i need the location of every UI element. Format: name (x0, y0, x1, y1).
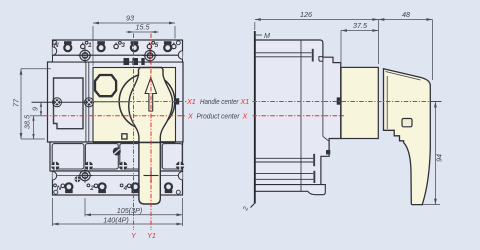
svg-text:38.5: 38.5 (23, 114, 32, 129)
svg-text:48: 48 (402, 10, 410, 19)
bottom strip (53, 171, 183, 195)
svg-text:N: N (54, 42, 59, 49)
top terminal screw side (255, 53, 312, 57)
top terminals: pole 5 (147, 41, 176, 51)
clover screw 1 (51, 162, 59, 170)
compartment box 3 (120, 144, 139, 169)
dim 15.5 (126, 31, 159, 33)
svg-text:105(3P): 105(3P) (117, 206, 143, 215)
svg-text:140(4P): 140(4P) (103, 215, 129, 224)
padlock hole (402, 119, 412, 127)
inner cover front line (322, 61, 324, 136)
svg-text:9: 9 (33, 107, 40, 111)
top terminal strip (53, 40, 183, 55)
thick panel bottom edge (93, 141, 176, 143)
handle inner top line (386, 72, 421, 81)
svg-text:1: 1 (88, 42, 92, 49)
svg-text:Product center: Product center (197, 114, 241, 121)
crosshair top left (78, 48, 93, 63)
dim 77 (21, 69, 51, 139)
body lower plate and foot (255, 185, 325, 195)
dim 37.5 (341, 31, 378, 67)
cream front panel (93, 68, 176, 142)
X1 handle center line right (253, 101, 431, 103)
compartment box 1 (52, 144, 84, 169)
svg-text:X1: X1 (186, 97, 196, 106)
shaft pin dark (337, 97, 341, 104)
side body outline (255, 40, 341, 185)
grip shaft front view (129, 68, 173, 205)
bottom terminal screw side (255, 158, 313, 162)
dim 93 (93, 23, 175, 66)
compartment box 2 (85, 144, 118, 169)
clover screw 3 (119, 162, 127, 170)
clover screw 2 (85, 162, 93, 170)
dim 140(4P) (53, 198, 183, 226)
back plate line (254, 31, 256, 204)
crosshair bottom right cross over grip (144, 168, 159, 183)
teeth tabs (124, 58, 130, 65)
svg-text:93: 93 (126, 14, 134, 23)
top terminals: pole N (54, 41, 72, 51)
svg-text:Y1: Y1 (147, 231, 156, 240)
dim 126 (255, 20, 379, 65)
svg-text:5: 5 (155, 42, 159, 49)
din clip screw side (255, 174, 313, 180)
crosshair top right (143, 48, 158, 63)
dim 9 (40, 102, 42, 116)
svg-text:94: 94 (435, 154, 444, 162)
dim 94 top arm (431, 101, 442, 103)
X product center line left (44, 115, 187, 117)
bottom terminals: pole N (54, 183, 73, 193)
cream front cover side (341, 67, 378, 138)
inner vertical line (300, 40, 302, 191)
svg-text:2: 2 (89, 185, 94, 192)
black tab at panel edge on X1 (175, 98, 179, 104)
svg-text:4: 4 (122, 185, 127, 192)
top band (53, 55, 183, 62)
svg-text:3: 3 (121, 42, 125, 49)
direction arrow on grip (145, 78, 156, 112)
X1 handle center line left (92, 101, 176, 103)
phillips screw bottom (75, 176, 81, 182)
notch square on profile (326, 150, 330, 154)
svg-text:X1: X1 (240, 97, 250, 106)
dim 105(3P) (85, 198, 183, 226)
screw left (53, 98, 62, 107)
dim 38.5 (30, 116, 44, 139)
top terminals: pole 3 (114, 41, 138, 51)
black handle-center line through screws (32, 101, 93, 103)
svg-text:77: 77 (12, 98, 21, 107)
lower mid body (50, 142, 183, 171)
knob escutcheon circle (119, 74, 175, 130)
compartment box 4 (162, 144, 182, 169)
cover lip (319, 57, 323, 62)
handle inner vertical line (386, 76, 388, 129)
black line on X1 through knob (93, 101, 176, 103)
screw right (85, 98, 94, 107)
M marker (255, 34, 262, 36)
line mid bottom strip (53, 175, 183, 177)
bottom terminals: pole 4 (120, 183, 139, 193)
bottom terminals: pole 2 (87, 183, 106, 193)
recess rectangle left (54, 78, 84, 129)
dark screw mid (113, 148, 121, 156)
inner diagonal (323, 136, 329, 141)
edge notches (53, 47, 57, 55)
small square on panel (122, 134, 127, 139)
Y1 handle center vertical (150, 34, 152, 231)
svg-text:M: M (264, 31, 270, 40)
svg-text:37.5: 37.5 (353, 21, 368, 30)
X product center line right (253, 115, 345, 117)
svg-text:15.5: 15.5 (136, 23, 151, 32)
dim 48 (378, 20, 432, 81)
svg-text:Handle center: Handle center (200, 99, 239, 106)
svg-text:126: 126 (300, 10, 312, 19)
bottom terminals: pole 6 (165, 183, 173, 193)
Y product center vertical (133, 34, 135, 231)
top terminals: pole 1 (81, 41, 105, 51)
corner holes (53, 41, 57, 45)
handle side profile (384, 69, 431, 205)
mid body (48, 62, 184, 142)
clover screw 4 (176, 162, 184, 170)
hexagon hole (95, 75, 116, 96)
crosshair bottom left (78, 168, 93, 183)
dim 94 (423, 102, 440, 205)
panel side wall lines (85, 62, 87, 142)
